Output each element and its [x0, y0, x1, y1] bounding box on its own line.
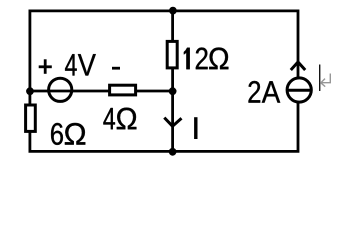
enter return mark [321, 74, 331, 87]
label plus sign [39, 59, 52, 74]
wire middle horizontal [30, 90, 173, 93]
wire middle vertical branch [171, 11, 174, 152]
node junction dot middle [169, 87, 177, 95]
voltage source V1 4V [48, 78, 73, 101]
node junction dot bottom [169, 148, 177, 156]
label 12ohm [184, 48, 228, 70]
label I [194, 117, 197, 139]
label 2A [249, 81, 281, 103]
label minus sign [112, 67, 120, 70]
resistor R 12ohm body [167, 41, 177, 68]
label 6ohm [51, 123, 85, 145]
node junction dot top [169, 7, 177, 15]
label 4V [65, 54, 96, 75]
current source I1 2A [287, 62, 311, 102]
wire outer loop [30, 11, 298, 152]
resistor R 6ohm body [26, 105, 36, 131]
resistor R 4ohm body [110, 85, 136, 95]
arrow current I downward [164, 118, 181, 127]
node junction dot left [26, 87, 34, 95]
text caret cursor [319, 65, 321, 92]
label 4ohm [103, 108, 136, 130]
